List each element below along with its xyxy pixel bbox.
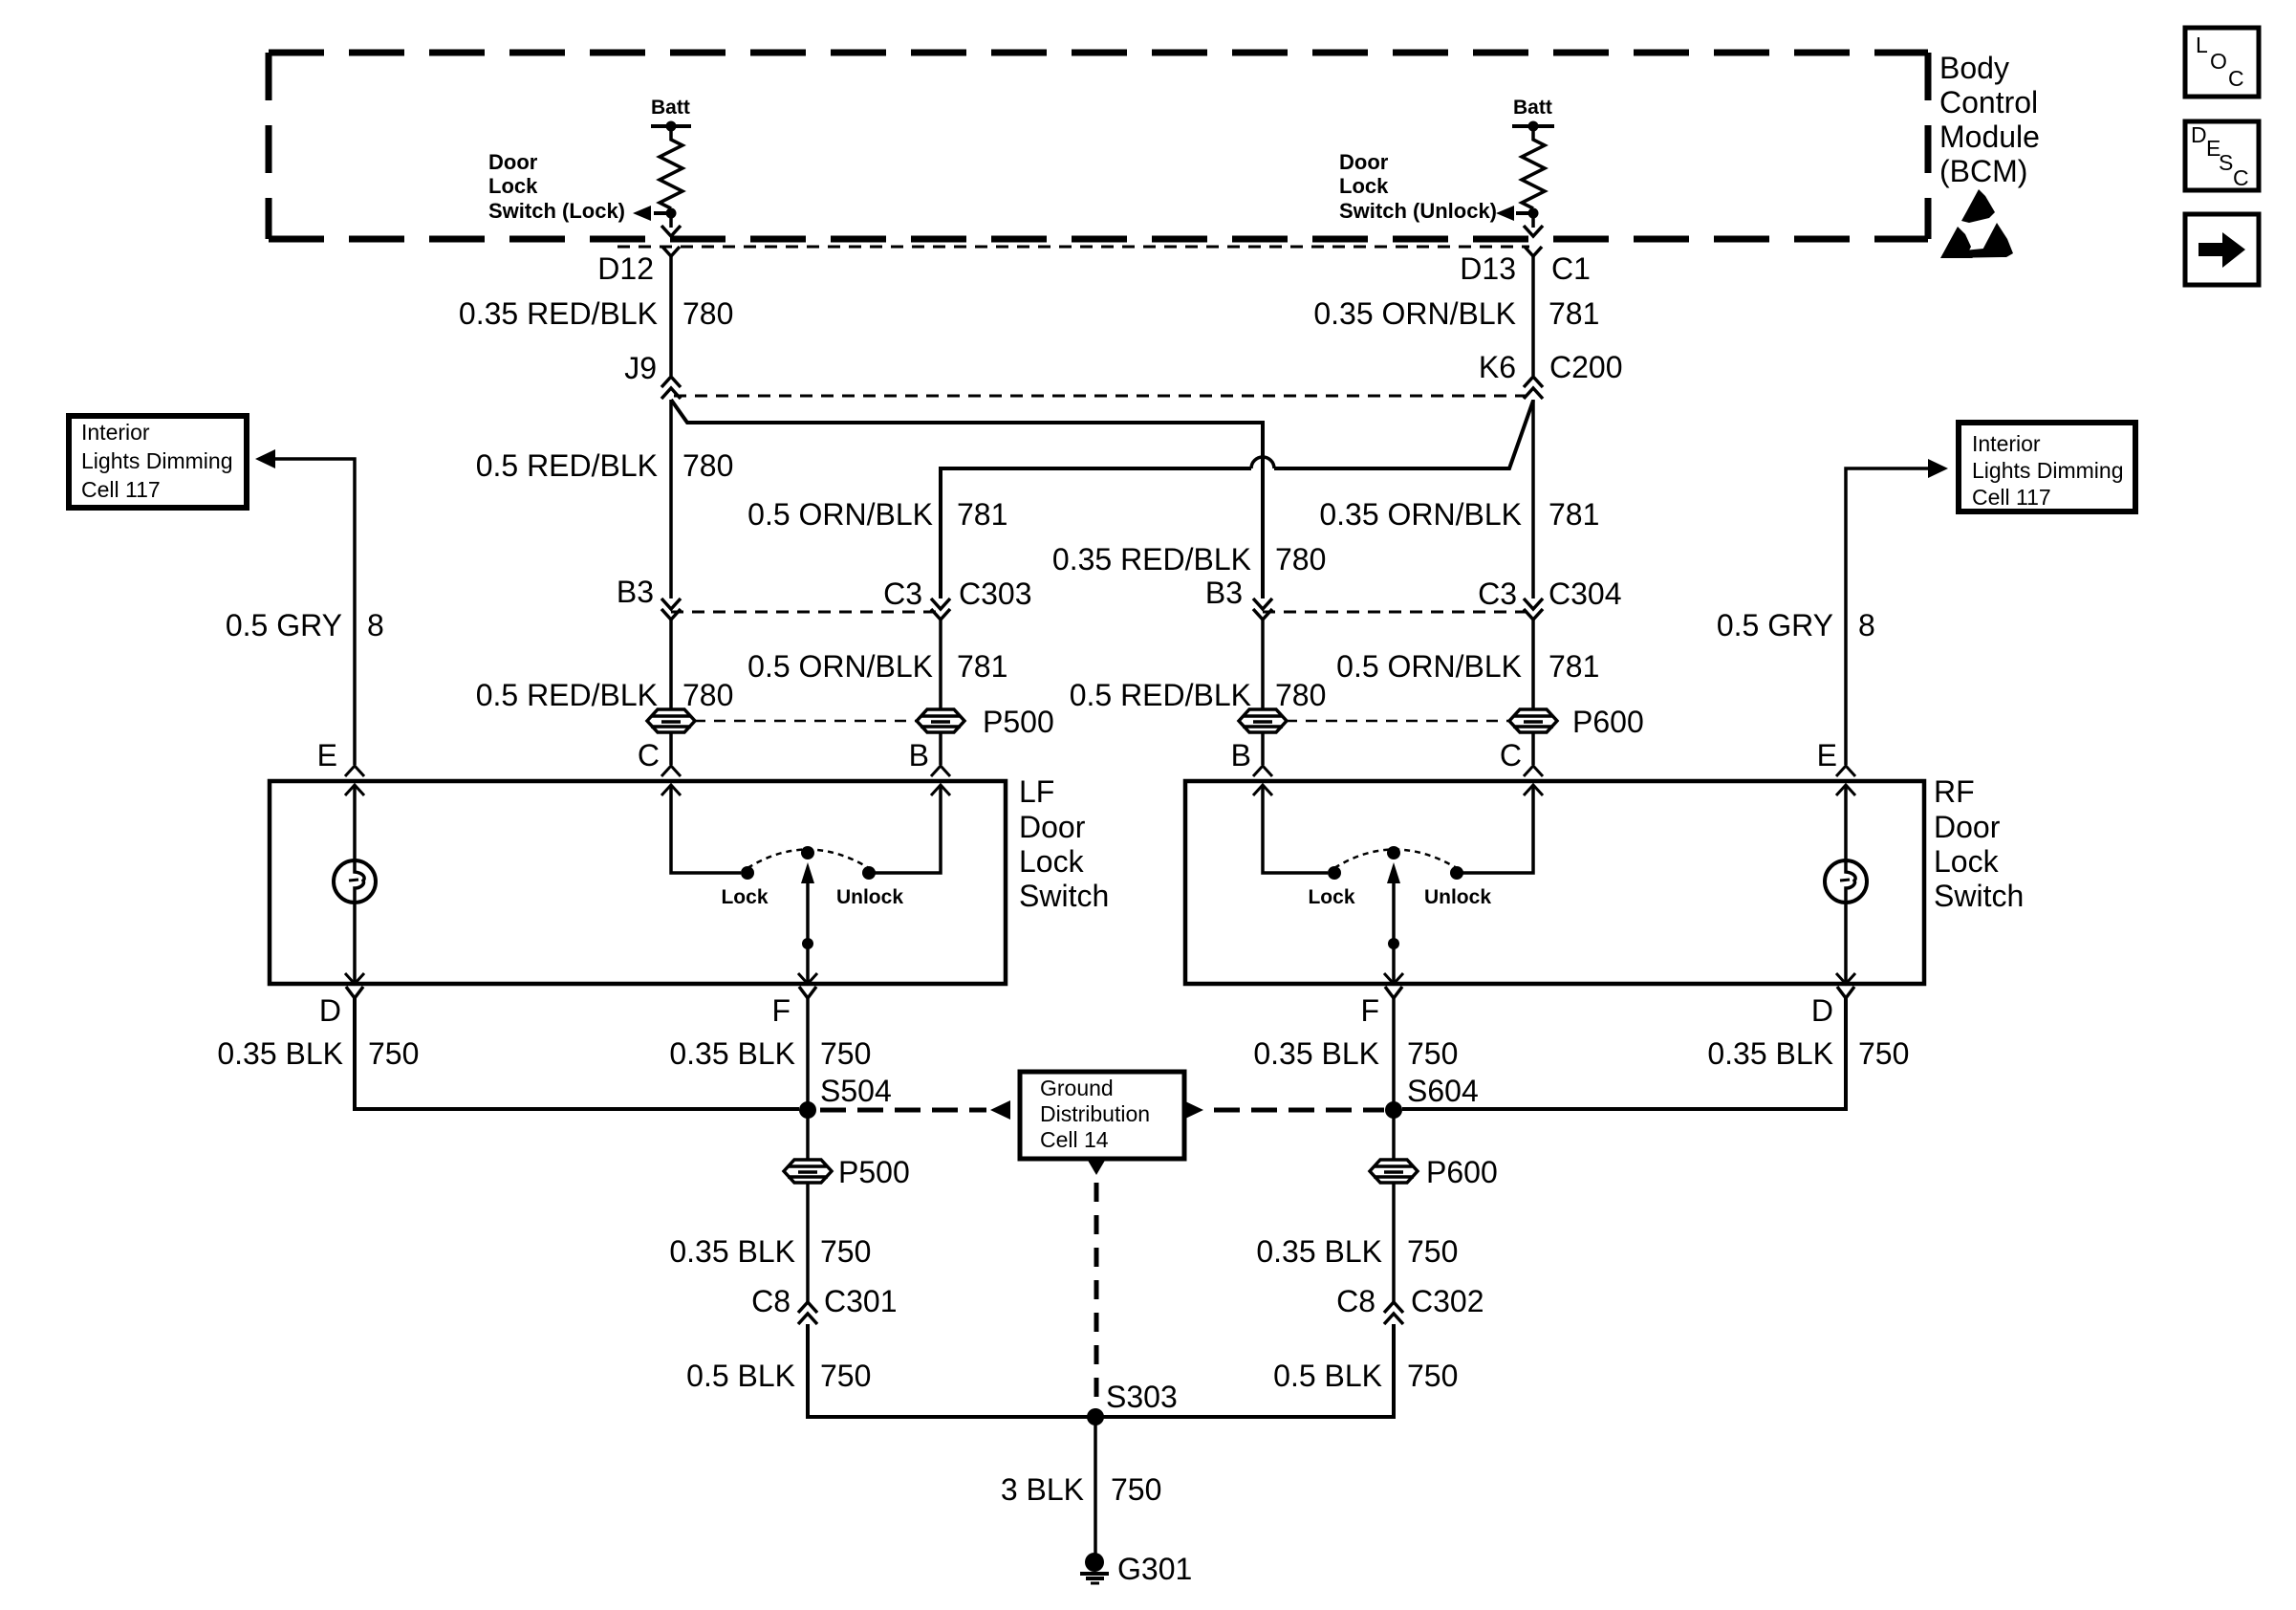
wire: 0.35 BLK 750 RF D to S604 (1402, 998, 1846, 1109)
wire: 0.35 BLK 750 LF F to S504 (806, 998, 810, 1161)
wire: 0.35 BLK 750 P500 to C301 (806, 1182, 810, 1302)
svg-text:780: 780 (1275, 542, 1326, 577)
svg-text:Lights Dimming: Lights Dimming (81, 448, 233, 473)
Ground Distribution Cell 14 box (1020, 1072, 1184, 1159)
node: bottom of left resistor (666, 208, 677, 219)
svg-text:G301: G301 (1117, 1552, 1192, 1586)
svg-text:C200: C200 (1549, 350, 1623, 384)
svg-text:0.35 ORN/BLK: 0.35 ORN/BLK (1319, 497, 1522, 532)
svg-text:S504: S504 (820, 1074, 892, 1108)
dashed ground reference down to S303 (1094, 1183, 1099, 1402)
svg-text:Lock: Lock (488, 174, 538, 198)
svg-text:750: 750 (1858, 1036, 1909, 1071)
RF wiper pivot (1387, 846, 1400, 859)
RF pin C internal wire (1457, 785, 1533, 873)
svg-text:Batt: Batt (651, 97, 690, 119)
svg-text:C304: C304 (1549, 577, 1622, 611)
LF pin E internal wire + arrows (345, 785, 364, 795)
svg-text:0.35 BLK: 0.35 BLK (1707, 1036, 1833, 1071)
svg-text:0.35 ORN/BLK: 0.35 ORN/BLK (1313, 296, 1516, 331)
svg-text:Lights Dimming: Lights Dimming (1972, 458, 2124, 483)
svg-text:0.5 BLK: 0.5 BLK (1273, 1359, 1382, 1393)
wire: 0.5 RED/BLK 780 to P500 (669, 620, 673, 710)
svg-text:B: B (909, 738, 929, 772)
svg-text:D13: D13 (1460, 251, 1516, 286)
svg-text:0.35 BLK: 0.35 BLK (217, 1036, 343, 1071)
RF wiper arrow (1387, 862, 1400, 883)
svg-text:Door: Door (1339, 150, 1389, 174)
LF pin C internal wire (661, 785, 681, 795)
ESD sensitivity symbol (1961, 189, 1995, 223)
svg-text:Lock: Lock (1308, 886, 1354, 908)
svg-text:750: 750 (820, 1036, 871, 1071)
svg-text:780: 780 (682, 448, 733, 483)
svg-text:(BCM): (BCM) (1939, 154, 2027, 188)
LF Door Lock Switch box (270, 781, 1006, 984)
svg-text:Cell 117: Cell 117 (81, 477, 161, 502)
C303 terminal C3 arrows (931, 598, 950, 609)
splice S504 (799, 1101, 816, 1119)
arrow: to Door Lock Switch (Unlock) (1496, 206, 1514, 221)
wire: 0.5 RED/BLK 780 to P600 (1261, 620, 1265, 710)
wire: into switch pin (1531, 731, 1535, 765)
svg-text:S: S (2219, 150, 2233, 175)
svg-text:0.5 BLK: 0.5 BLK (686, 1359, 795, 1393)
svg-text:Distribution: Distribution (1040, 1101, 1150, 1126)
svg-text:F: F (1360, 993, 1379, 1028)
svg-text:Lock: Lock (1934, 844, 2000, 879)
svg-text:0.5 GRY: 0.5 GRY (226, 608, 342, 642)
Batt feed bar (left) (651, 124, 691, 128)
wire: left resistor down to BCM pin D12 (669, 213, 673, 228)
svg-text:0.5 RED/BLK: 0.5 RED/BLK (476, 678, 658, 712)
splice S604 (1385, 1101, 1402, 1119)
arrow: to Door Lock Switch (Lock) (633, 206, 651, 221)
connector C301 arrows (798, 1302, 817, 1313)
connector C303 dashed line (671, 611, 941, 614)
RF pole junction (1388, 938, 1399, 949)
wire: 0.5 BLK 750 C301 to S303 (808, 1324, 1394, 1417)
grommet P600 (on RF C wire) (1509, 709, 1557, 732)
svg-text:750: 750 (1407, 1234, 1458, 1269)
wire: 0.35 BLK 750 RF F to S604 (1392, 998, 1396, 1161)
svg-text:K6: K6 (1479, 350, 1516, 384)
svg-text:0.5 GRY: 0.5 GRY (1717, 608, 1833, 642)
svg-text:0.5 ORN/BLK: 0.5 ORN/BLK (747, 497, 933, 532)
svg-text:0.35 RED/BLK: 0.35 RED/BLK (1052, 542, 1251, 577)
LF pin F connector (799, 987, 816, 998)
RF pin E internal wire + lamp (1836, 785, 1855, 795)
wire: branch from K6 to LF switch pin B (with hop) (1274, 401, 1533, 468)
node: top of left resistor (666, 121, 677, 132)
LF Lock contact (741, 866, 754, 880)
wire: into switch pin (1261, 731, 1265, 765)
svg-text:Unlock: Unlock (1424, 886, 1491, 908)
resistor: BCM internal pull-up (right, Unlock) (1522, 126, 1545, 208)
svg-text:781: 781 (1549, 497, 1599, 532)
svg-text:781: 781 (957, 497, 1007, 532)
RF Lock contact (1328, 866, 1341, 880)
svg-text:P500: P500 (983, 705, 1054, 739)
arrow to right Interior Lights box (1928, 459, 1948, 478)
svg-text:C303: C303 (959, 577, 1032, 611)
svg-text:750: 750 (820, 1359, 871, 1393)
svg-text:C8: C8 (1336, 1284, 1375, 1318)
LF pole junction (802, 938, 813, 949)
C304 terminal B3 arrows (1253, 598, 1272, 609)
arrowhead at BCM edge (left) (661, 226, 681, 236)
wire: 0.5 GRY 8 (LF E) (274, 459, 355, 765)
svg-text:O: O (2210, 49, 2227, 74)
svg-text:0.35 RED/BLK: 0.35 RED/BLK (459, 296, 658, 331)
svg-text:C302: C302 (1411, 1284, 1484, 1318)
wire: branch from J9 to RF switch pin B (671, 400, 1263, 598)
svg-text:Lock: Lock (1019, 844, 1085, 879)
arrow toward S604 (1183, 1100, 1203, 1120)
svg-text:0.5 ORN/BLK: 0.5 ORN/BLK (747, 649, 933, 684)
node: bottom of right resistor (1528, 208, 1539, 219)
svg-text:780: 780 (1275, 678, 1326, 712)
Interior Lights Dimming Cell 117 box (left) (69, 416, 247, 508)
connector C304 dashed line (1263, 611, 1533, 614)
svg-text:E: E (317, 738, 337, 772)
wire: into switch pin (669, 731, 673, 765)
arrow toward S504 (990, 1100, 1010, 1120)
svg-text:Door: Door (488, 150, 538, 174)
svg-text:0.35 BLK: 0.35 BLK (1253, 1036, 1379, 1071)
svg-text:8: 8 (367, 608, 384, 642)
svg-text:B3: B3 (1205, 576, 1243, 610)
svg-text:J9: J9 (624, 351, 657, 385)
svg-text:Interior: Interior (1972, 431, 2041, 456)
svg-text:P600: P600 (1426, 1155, 1498, 1189)
Body Control Module (BCM) dashed box (269, 50, 1928, 56)
svg-text:Module: Module (1939, 120, 2040, 154)
connector C200 terminal K6 arrows (1524, 377, 1543, 387)
arrow to left Interior Lights box (255, 449, 275, 468)
svg-text:RF: RF (1934, 774, 1975, 809)
connector C1 terminal D13 (Y) (1525, 247, 1542, 256)
RF pin D connector (1837, 987, 1854, 998)
grommet P600 (on RF B wire) (1239, 709, 1287, 732)
arrow below Ground box (1087, 1159, 1106, 1175)
svg-text:L: L (2196, 33, 2208, 57)
svg-text:0.35 BLK: 0.35 BLK (669, 1036, 795, 1071)
dashed ground reference (S504 side) (820, 1108, 986, 1113)
wire: into switch pin (939, 731, 942, 765)
lamp: RF illumination bulb (1825, 860, 1867, 903)
svg-text:Cell 14: Cell 14 (1040, 1127, 1109, 1152)
svg-text:0.5 RED/BLK: 0.5 RED/BLK (1070, 678, 1251, 712)
svg-text:780: 780 (682, 296, 733, 331)
LF pin D connector (346, 987, 363, 998)
grommet P500 dashed link (694, 720, 919, 723)
wire: stub to Door Lock Switch (Unlock) arrow (1516, 211, 1533, 215)
RF switch wiper dashed arc (1334, 850, 1457, 869)
svg-text:781: 781 (1549, 649, 1599, 684)
resistor: BCM internal pull-up (left, Lock) (660, 126, 682, 208)
grommet P500 (on LF B wire) (917, 709, 964, 732)
svg-text:C: C (2233, 165, 2249, 190)
grommet P600 dashed link (1286, 720, 1510, 723)
grommet P600 (lower) (1370, 1160, 1418, 1183)
RF Door Lock Switch box (1185, 781, 1924, 984)
svg-text:C3: C3 (1478, 577, 1517, 611)
svg-text:B3: B3 (617, 575, 654, 609)
svg-text:Batt: Batt (1513, 97, 1552, 119)
svg-text:Door: Door (1019, 810, 1086, 844)
svg-text:Lock: Lock (1339, 174, 1389, 198)
svg-text:Switch: Switch (1934, 879, 2024, 913)
wire: 0.35 BLK 750 P600 to C302 (1392, 1182, 1396, 1302)
arrowhead at BCM edge (right) (1524, 226, 1543, 236)
svg-text:781: 781 (957, 649, 1007, 684)
lamp: LF illumination bulb (334, 860, 376, 903)
svg-text:Lock: Lock (721, 886, 768, 908)
svg-text:Switch: Switch (1019, 879, 1109, 913)
svg-text:0.5 RED/BLK: 0.5 RED/BLK (476, 448, 658, 483)
connector C302 arrows (1384, 1302, 1403, 1313)
svg-text:0.5 ORN/BLK: 0.5 ORN/BLK (1336, 649, 1522, 684)
svg-text:B: B (1231, 738, 1251, 772)
wire: 0.35 RED/BLK 780 from D12 to J9 (669, 256, 673, 376)
LF wiper arrow (801, 862, 814, 883)
wire: stub to Door Lock Switch (Lock) arrow (654, 211, 671, 215)
DESC reference box (2185, 121, 2259, 190)
svg-text:D: D (1811, 993, 1833, 1028)
svg-text:D: D (319, 993, 341, 1028)
svg-text:P600: P600 (1572, 705, 1644, 739)
dashed ground reference (S604 side) (1214, 1108, 1384, 1113)
svg-text:Cell 117: Cell 117 (1972, 485, 2051, 510)
svg-text:S604: S604 (1407, 1074, 1479, 1108)
svg-text:C301: C301 (824, 1284, 898, 1318)
svg-text:Door: Door (1934, 810, 2001, 844)
wire: K6 to C304 (1531, 400, 1535, 598)
svg-text:C8: C8 (751, 1284, 791, 1318)
svg-text:F: F (771, 993, 791, 1028)
svg-text:LF: LF (1019, 774, 1054, 809)
LOC reference box (2185, 28, 2259, 97)
wire: 0.5 RED/BLK 780 J9 to C303 (669, 400, 673, 598)
connector C1 terminal D12 (Y) (662, 247, 680, 256)
svg-text:0.35 BLK: 0.35 BLK (1256, 1234, 1382, 1269)
RF pole wire (1392, 875, 1396, 983)
connector C200 dashed line (674, 395, 1527, 398)
svg-text:750: 750 (1407, 1036, 1458, 1071)
node: top of right resistor (1528, 121, 1539, 132)
wire: 0.5 GRY 8 (RF E) (1846, 468, 1929, 765)
C303 terminal B3 arrows (661, 598, 681, 609)
svg-text:Control: Control (1939, 85, 2038, 120)
wire: 0.5 ORN/BLK 781 to P500 (939, 620, 942, 710)
svg-text:Ground: Ground (1040, 1076, 1114, 1100)
LF pole wire (806, 875, 810, 983)
svg-text:Switch (Unlock): Switch (Unlock) (1339, 199, 1497, 223)
svg-text:C: C (2228, 66, 2244, 91)
wire: 0.35 BLK 750 LF D to S504 (355, 998, 799, 1109)
svg-text:0.35 BLK: 0.35 BLK (669, 1234, 795, 1269)
svg-text:Body: Body (1939, 51, 2009, 85)
Interior Lights Dimming Cell 117 box (right) (1959, 423, 2135, 511)
wire: 0.5 ORN/BLK 781 to P600 (1531, 620, 1535, 710)
RF pin B internal wire (1253, 785, 1272, 795)
svg-text:C1: C1 (1551, 251, 1591, 286)
svg-text:3 BLK: 3 BLK (1001, 1472, 1084, 1507)
ground G301 (1085, 1553, 1104, 1572)
svg-text:E: E (1817, 738, 1837, 772)
LF pin B internal wire (869, 785, 941, 873)
splice S303 (1087, 1408, 1104, 1425)
RF Unlock contact (1450, 866, 1463, 880)
svg-text:Interior: Interior (81, 420, 150, 445)
svg-text:781: 781 (1549, 296, 1599, 331)
LF wiper pivot (801, 846, 814, 859)
LF Unlock contact (862, 866, 876, 880)
svg-text:Unlock: Unlock (836, 886, 903, 908)
svg-text:C: C (1500, 738, 1522, 772)
svg-text:780: 780 (682, 678, 733, 712)
RF pin F connector (1385, 987, 1402, 998)
grommet P500 (on LF C wire) (647, 709, 695, 732)
Batt feed bar (right) (1512, 124, 1554, 128)
svg-text:P500: P500 (838, 1155, 910, 1189)
wire: 0.35 ORN/BLK 781 from D13 to K6 (1531, 256, 1535, 376)
svg-text:750: 750 (368, 1036, 419, 1071)
C304 terminal C3 arrows (1524, 598, 1543, 609)
svg-text:750: 750 (1111, 1472, 1161, 1507)
wire: right resistor down to BCM pin D13 (1531, 213, 1535, 228)
svg-text:8: 8 (1858, 608, 1875, 642)
connector C1 dashed line (617, 246, 1529, 249)
svg-text:750: 750 (1407, 1359, 1458, 1393)
wire: 3 BLK 750 to G301 (1094, 1417, 1097, 1554)
svg-text:D12: D12 (597, 251, 654, 286)
svg-text:C: C (638, 738, 660, 772)
LF switch wiper dashed arc (747, 850, 869, 869)
grommet P500 (lower) (784, 1160, 832, 1183)
svg-text:C3: C3 (883, 577, 922, 611)
forward arrow box (2185, 214, 2259, 285)
svg-text:D: D (2191, 122, 2207, 147)
connector C200 terminal J9 arrows (661, 377, 681, 387)
svg-text:Switch (Lock): Switch (Lock) (488, 199, 625, 223)
svg-text:750: 750 (820, 1234, 871, 1269)
svg-text:S303: S303 (1106, 1380, 1178, 1414)
